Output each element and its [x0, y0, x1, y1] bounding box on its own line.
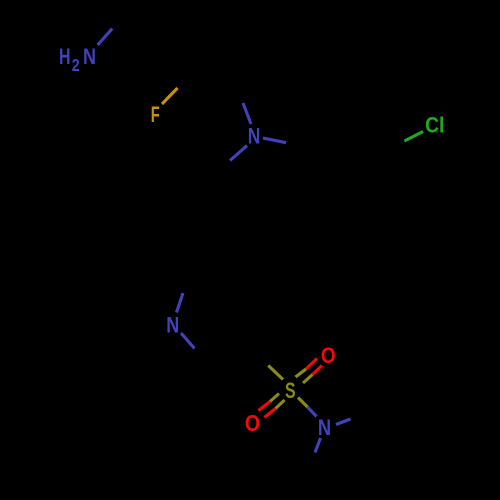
wire: indole N bond down-left (nitrogen half)	[230, 146, 247, 161]
wire: sulfonamide N bond right (nitrogen half)	[336, 419, 351, 425]
wire: sulfonamide N bond down-left (nitrogen half)	[315, 438, 321, 453]
wire: bond H2N-CH2 (nitrogen half)	[98, 29, 113, 45]
node S sulfur label	[285, 378, 296, 403]
node O upper oxygen label	[321, 343, 336, 368]
wire: bond Cl-C (chlorine half)	[405, 132, 424, 142]
svg-text:S: S	[285, 378, 296, 403]
node N sulfonamide label	[318, 415, 331, 440]
wire: bond S-C ring (sulfur half)	[268, 366, 283, 380]
wire: S=O lower double bond line 2	[265, 400, 285, 418]
wire: pyridine N bond up-right (nitrogen half)	[177, 293, 184, 313]
wire: indole N bond up (nitrogen half)	[243, 103, 251, 124]
svg-text:N: N	[318, 415, 331, 440]
wire: S=O upper double bond line 2	[303, 366, 322, 384]
svg-text:F: F	[151, 102, 160, 127]
wire: pyridine N bond down-right (nitrogen half)	[181, 333, 195, 349]
node N indole label	[248, 124, 261, 149]
svg-text:H: H	[59, 44, 71, 69]
svg-text:N: N	[83, 44, 96, 69]
svg-text:Cl: Cl	[425, 112, 444, 137]
node Cl chlorine label	[425, 112, 444, 137]
svg-text:O: O	[245, 410, 260, 436]
wire: S-N bond (two colored halves)	[298, 398, 317, 417]
svg-text:N: N	[166, 313, 179, 338]
wire: bond F-C (fluorine half)	[162, 88, 178, 104]
wire: indole N bond right (nitrogen half)	[263, 138, 286, 143]
node H2N amine label	[59, 44, 96, 75]
svg-text:N: N	[248, 124, 261, 149]
wire: S=O upper double bond line 1	[296, 359, 318, 378]
svg-text:2: 2	[72, 55, 80, 75]
svg-text:O: O	[321, 343, 336, 368]
node O lower oxygen label	[245, 410, 260, 436]
wire: S=O lower double bond line 1	[259, 394, 280, 411]
node N pyridine label	[166, 313, 179, 338]
node F fluorine label	[151, 102, 160, 127]
